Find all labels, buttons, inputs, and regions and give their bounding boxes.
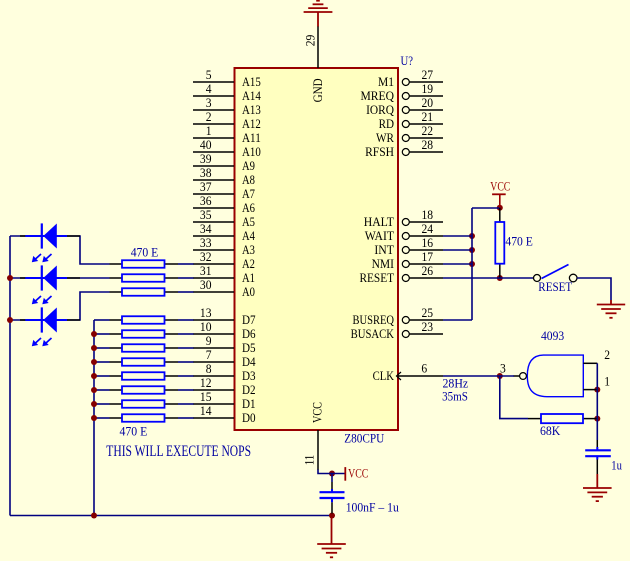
pin 37 (A7) of U1: [193, 179, 255, 201]
svg-text:WAIT: WAIT: [365, 228, 394, 243]
wire: bottom node to ground: [331, 517, 333, 544]
resistor 470E (D4 row) leads: [110, 361, 179, 363]
resistor 470E (D1 row) leads: [110, 403, 179, 405]
resistor 470E body (D0 row): [122, 414, 165, 422]
svg-text:100nF – 1u: 100nF – 1u: [346, 500, 400, 515]
IC U? Z80CPU body: [235, 68, 399, 430]
svg-text:15: 15: [200, 389, 212, 404]
resistor 470E body (D1 row): [122, 400, 165, 408]
resistor 68K leads: [528, 418, 597, 420]
pin 4 (A14) of U1: [193, 81, 261, 103]
wire: pin 11 elbow to VCC node: [318, 470, 345, 474]
resistor 470E (D7 row) leads: [110, 319, 179, 321]
svg-text:11: 11: [302, 455, 317, 466]
ground (top, at GND pin 29): [304, 1, 333, 27]
resistor 470E (D2 row) leads: [110, 389, 179, 391]
capacitor 1u: [585, 447, 611, 460]
pin 29 (GND) of U1: [303, 26, 325, 102]
svg-text:2: 2: [206, 109, 212, 124]
resistor 68K body: [541, 414, 583, 423]
wire: bus to resistor D3 row: [94, 375, 110, 377]
wire: bus to resistor D0 row: [94, 417, 110, 419]
junction at (94,418): [91, 415, 97, 421]
pin 36 (A6) of U1: [193, 193, 255, 215]
resistor 470E body (A1 row): [122, 274, 165, 282]
svg-text:29: 29: [303, 35, 318, 47]
svg-text:NMI: NMI: [372, 256, 394, 271]
junction at (94,376): [91, 373, 97, 379]
svg-text:Z80CPU: Z80CPU: [344, 430, 385, 445]
svg-text:IORQ: IORQ: [366, 102, 394, 117]
pin 25 (BUSREQ) of U1: [353, 305, 444, 327]
pin 17 (NMI) of U1: [372, 249, 443, 271]
svg-text:WR: WR: [376, 130, 394, 145]
junction at (10,278): [7, 275, 13, 281]
svg-text:1: 1: [604, 374, 610, 389]
pin 18 (HALT) of U1: [364, 207, 443, 229]
pin 13 (D7) of U1: [193, 305, 256, 327]
svg-text:34: 34: [200, 221, 212, 236]
svg-text:A7: A7: [242, 186, 255, 201]
ground (right of switch): [597, 300, 625, 318]
wire: LED3 row to elbow: [10, 292, 110, 320]
svg-text:A11: A11: [242, 130, 261, 145]
svg-text:68K: 68K: [540, 423, 561, 438]
svg-text:27: 27: [422, 67, 434, 82]
wire: resistor A2 to pin: [178, 263, 194, 265]
svg-text:RD: RD: [379, 116, 394, 131]
wire: resistor D0 to pin: [178, 417, 194, 419]
svg-text:A15: A15: [242, 74, 261, 89]
pin 20 (IORQ) of U1: [366, 95, 443, 117]
svg-text:36: 36: [200, 193, 212, 208]
svg-text:A0: A0: [242, 284, 255, 299]
svg-text:16: 16: [422, 235, 434, 250]
pin 33 (A3) of U1: [193, 235, 255, 257]
pin 5 (A15) of U1: [193, 67, 261, 89]
junction at (94,404): [91, 401, 97, 407]
svg-text:26: 26: [422, 263, 434, 278]
svg-text:9: 9: [206, 333, 212, 348]
svg-text:3: 3: [206, 95, 212, 110]
capacitor 100nF-1u: [320, 489, 345, 502]
svg-text:14: 14: [200, 403, 212, 418]
junction at (94,362): [91, 359, 97, 365]
svg-text:A1: A1: [242, 270, 255, 285]
svg-text:35: 35: [200, 207, 212, 222]
svg-text:VCC: VCC: [490, 180, 510, 194]
wire: INT to bus: [443, 249, 472, 251]
svg-text:D3: D3: [242, 368, 256, 383]
resistor 470E body (D4 row): [122, 358, 165, 366]
wire: NMI to bus: [443, 263, 472, 265]
resistor 470E (D5 row) leads: [110, 347, 179, 349]
svg-text:5: 5: [206, 67, 212, 82]
svg-text:A9: A9: [242, 158, 255, 173]
svg-text:D1: D1: [242, 396, 256, 411]
svg-text:20: 20: [422, 95, 434, 110]
svg-text:470 E: 470 E: [131, 245, 159, 260]
svg-text:10: 10: [200, 319, 212, 334]
junction at (94,348): [91, 345, 97, 351]
wire: bus to resistor D4 row: [94, 361, 110, 363]
pin 19 (MREQ) of U1: [361, 81, 444, 103]
svg-text:22: 22: [422, 123, 434, 138]
svg-text:A10: A10: [242, 144, 261, 159]
svg-text:A6: A6: [242, 200, 255, 215]
wire: resistor D7 to pin: [178, 319, 194, 321]
svg-text:A4: A4: [242, 228, 255, 243]
wire: resistor A1 to pin: [178, 277, 194, 279]
svg-text:A8: A8: [242, 172, 255, 187]
svg-text:GND: GND: [310, 78, 325, 102]
resistor 470E pull-up: [495, 208, 504, 278]
svg-text:BUSACK: BUSACK: [351, 326, 395, 341]
svg-text:19: 19: [422, 81, 434, 96]
junction at (332,473.5): [329, 471, 335, 477]
wire: resistor D3 to pin: [178, 375, 194, 377]
wire: right pull-up bus vertical: [471, 208, 473, 320]
svg-text:RESET: RESET: [538, 279, 572, 294]
svg-text:D5: D5: [242, 340, 256, 355]
svg-text:470 E: 470 E: [505, 234, 533, 249]
svg-text:18: 18: [422, 207, 434, 222]
pin 27 (M1) of U1: [378, 67, 443, 89]
pin 10 (D6) of U1: [193, 319, 256, 341]
wire: D resistor bus vertical: [93, 320, 95, 516]
LED D1: [25, 223, 67, 262]
wire: resistor D2 to pin: [178, 389, 194, 391]
pin 16 (INT) of U1: [374, 235, 443, 257]
svg-text:39: 39: [200, 151, 212, 166]
wire: bus to resistor D5 row: [94, 347, 110, 349]
ground (below 1u cap): [583, 488, 612, 501]
svg-text:D4: D4: [242, 354, 256, 369]
svg-text:D0: D0: [242, 410, 256, 425]
junction at (499.8,376): [497, 373, 503, 379]
junction at (499.8,278): [497, 275, 503, 281]
junction at (472,236): [469, 233, 475, 239]
resistor 470E (A0 row) leads: [110, 291, 179, 293]
svg-text:4093: 4093: [541, 328, 564, 343]
svg-text:17: 17: [422, 249, 434, 264]
svg-text:2: 2: [604, 347, 610, 362]
svg-text:INT: INT: [374, 242, 394, 257]
pin 15 (D1) of U1: [193, 389, 256, 411]
pin 28 (RFSH) of U1: [365, 137, 443, 159]
svg-text:D6: D6: [242, 326, 256, 341]
svg-text:33: 33: [200, 235, 212, 250]
resistor 470E (D0 row) leads: [110, 417, 179, 419]
wire: capacitor to bottom node: [331, 502, 333, 513]
wire: resistor D1 to pin: [178, 403, 194, 405]
svg-text:4: 4: [206, 81, 212, 96]
svg-text:A13: A13: [242, 102, 261, 117]
wire: LED cathode bus (left vertical): [9, 236, 11, 516]
LED D2: [25, 265, 67, 304]
junction at (597.3,389.6): [594, 387, 600, 393]
ground (bottom center): [317, 544, 346, 557]
wire: resistor D4 to pin: [178, 361, 194, 363]
wire: LED1 row to elbow: [10, 236, 110, 264]
resistor 470E body (D7 row): [122, 316, 165, 324]
junction at (472,264): [469, 261, 475, 267]
pin 30 (A0) of U1: [193, 277, 255, 299]
wire: feedback left vertical: [500, 376, 528, 419]
wire: LED2 row: [10, 277, 110, 279]
svg-text:21: 21: [422, 109, 434, 124]
pin 34 (A4) of U1: [193, 221, 255, 243]
wire: switch to ground: [577, 278, 611, 300]
svg-text:VCC: VCC: [310, 402, 325, 423]
pin 40 (A10) of U1: [193, 137, 261, 159]
svg-text:VCC: VCC: [348, 467, 368, 481]
wire: bus top to VCC node: [472, 207, 500, 209]
pin 12 (D2) of U1: [193, 375, 256, 397]
pin 32 (A2) of U1: [193, 249, 255, 271]
pin 38 (A8) of U1: [193, 165, 255, 187]
svg-text:7: 7: [206, 347, 212, 362]
pin 23 (BUSACK) of U1: [351, 319, 443, 341]
svg-text:38: 38: [200, 165, 212, 180]
svg-text:HALT: HALT: [364, 214, 394, 229]
resistor 470E (A1 row) leads: [110, 277, 179, 279]
svg-text:24: 24: [422, 221, 434, 236]
junction at (94,390): [91, 387, 97, 393]
pin 22 (WR) of U1: [376, 123, 443, 145]
junction at (94,515.5): [91, 513, 97, 519]
resistor 470E body (A0 row): [122, 288, 165, 296]
switch RESET: [534, 265, 578, 282]
svg-text:40: 40: [200, 137, 212, 152]
svg-text:1: 1: [206, 123, 212, 138]
wire: cap 1u to ground: [596, 460, 598, 489]
resistor 470E body (D2 row): [122, 386, 165, 394]
svg-text:35mS: 35mS: [442, 389, 468, 404]
svg-text:31: 31: [200, 263, 212, 278]
pin 8 (D3) of U1: [193, 361, 256, 383]
svg-text:32: 32: [200, 249, 212, 264]
svg-text:BUSREQ: BUSREQ: [353, 312, 395, 327]
svg-text:8: 8: [206, 361, 212, 376]
wire: VCC node down to capacitor: [331, 474, 333, 490]
wire: LED lead stubs row 236: [20, 235, 80, 237]
resistor 470E body (D3 row): [122, 372, 165, 380]
svg-text:D7: D7: [242, 312, 256, 327]
wire: gate input vertical: [596, 363, 598, 450]
pin 6 (CLK) of U1: [373, 361, 443, 384]
pin 39 (A9) of U1: [193, 151, 255, 173]
pin 7 (D4) of U1: [193, 347, 256, 369]
svg-text:RESET: RESET: [360, 270, 395, 285]
resistor 470E body (D5 row): [122, 344, 165, 352]
svg-text:6: 6: [421, 361, 427, 376]
junction at (10,320): [7, 317, 13, 323]
pin 9 (D5) of U1: [193, 333, 256, 355]
svg-text:RFSH: RFSH: [365, 144, 394, 159]
resistor 470E (D3 row) leads: [110, 375, 179, 377]
svg-text:A2: A2: [242, 256, 255, 271]
resistor 470E body (A2 row): [122, 260, 165, 268]
svg-text:D2: D2: [242, 382, 256, 397]
pin 24 (WAIT) of U1: [365, 221, 443, 243]
svg-text:28: 28: [422, 137, 434, 152]
wire: LED lead stubs row 320: [20, 319, 80, 321]
wire: bus to resistor D6 row: [94, 333, 110, 335]
wire: bottom horizontal run to capacitor: [10, 515, 332, 517]
svg-text:M1: M1: [378, 74, 394, 89]
svg-text:A3: A3: [242, 242, 255, 257]
svg-text:13: 13: [200, 305, 212, 320]
junction at (499.8,207.8): [497, 205, 503, 211]
pin 1 (A11) of U1: [193, 123, 261, 145]
wire: resistor D6 to pin: [178, 333, 194, 335]
resistor 470E (A2 row) leads: [110, 263, 179, 265]
svg-text:470 E: 470 E: [120, 424, 148, 439]
pin 21 (RD) of U1: [379, 109, 443, 131]
svg-text:U?: U?: [401, 53, 414, 68]
wire: RESET row to switch: [443, 277, 534, 279]
svg-text:CLK: CLK: [373, 368, 395, 383]
svg-text:3: 3: [500, 361, 506, 376]
LED D3: [25, 307, 67, 346]
wire: bus to resistor D7 row: [94, 319, 110, 321]
pin 11 (VCC) of U1: [302, 402, 325, 470]
svg-text:MREQ: MREQ: [361, 88, 395, 103]
svg-text:23: 23: [422, 319, 434, 334]
power VCC (at pin 11): [345, 467, 368, 481]
junction at (472,250): [469, 247, 475, 253]
svg-text:1u: 1u: [611, 458, 622, 473]
resistor 470E body (D6 row): [122, 330, 165, 338]
pin 35 (A5) of U1: [193, 207, 255, 229]
junction at (94,334): [91, 331, 97, 337]
wire: resistor D5 to pin: [178, 347, 194, 349]
power VCC (pull-up): [490, 180, 510, 208]
wire: bus to resistor D1 row: [94, 403, 110, 405]
svg-text:12: 12: [200, 375, 212, 390]
resistor 470E (D6 row) leads: [110, 333, 179, 335]
svg-text:30: 30: [200, 277, 212, 292]
wire: bus to resistor D2 row: [94, 389, 110, 391]
wire: BUSREQ to bus: [443, 319, 472, 321]
pin 31 (A1) of U1: [193, 263, 255, 285]
pin 26 (RESET) of U1: [360, 263, 444, 285]
svg-text:37: 37: [200, 179, 212, 194]
wire: resistor A0 to pin: [178, 291, 194, 293]
junction at (332,515.5): [329, 513, 335, 519]
pin 3 (A13) of U1: [193, 95, 261, 117]
NAND gate 4093: [513, 355, 597, 397]
svg-text:A12: A12: [242, 116, 261, 131]
wire: CLK to gate output: [443, 375, 514, 377]
svg-text:25: 25: [422, 305, 434, 320]
wire: LED lead stubs row 278: [20, 277, 80, 279]
svg-text:A5: A5: [242, 214, 255, 229]
wire: WAIT to bus: [443, 235, 472, 237]
pin 2 (A12) of U1: [193, 109, 261, 131]
junction at (597.3,418.6): [594, 416, 600, 422]
svg-text:A14: A14: [242, 88, 261, 103]
svg-text:THIS WILL EXECUTE NOPS: THIS WILL EXECUTE NOPS: [106, 443, 251, 460]
pin 14 (D0) of U1: [193, 403, 256, 425]
